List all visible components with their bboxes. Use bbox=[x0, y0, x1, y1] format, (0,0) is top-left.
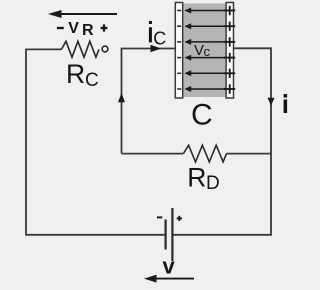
iC current arrowhead bbox=[151, 45, 162, 53]
label minus of vR bbox=[57, 27, 64, 29]
svg-text:c: c bbox=[204, 44, 211, 59]
up arrowhead on left inner branch bbox=[118, 93, 125, 102]
svg-text:C: C bbox=[153, 29, 166, 49]
capacitor C left plate bbox=[175, 3, 182, 99]
battery minus sign bbox=[157, 216, 162, 218]
vR reference arrow (top) bbox=[58, 13, 117, 15]
svg-text:V: V bbox=[68, 20, 79, 37]
v reference arrow (bottom) bbox=[154, 278, 194, 280]
svg-text:R: R bbox=[187, 163, 206, 193]
battery short plate (-) bbox=[165, 220, 167, 250]
svg-text:D: D bbox=[206, 173, 220, 194]
electric field arrows inside capacitor bbox=[191, 11, 227, 90]
capacitor C right plate bbox=[226, 3, 233, 99]
label iC : i drawn as shapes bbox=[149, 21, 152, 24]
resistor RC bbox=[61, 41, 99, 57]
wire RD branch bbox=[122, 153, 272, 155]
svg-text:C: C bbox=[191, 99, 213, 132]
capacitor C dielectric region bbox=[183, 4, 227, 98]
plus charges on right plate bbox=[224, 6, 236, 94]
open terminal circle of RC bbox=[102, 46, 108, 52]
svg-text:C: C bbox=[85, 70, 99, 91]
battery plus sign bbox=[177, 216, 182, 221]
svg-text:R: R bbox=[82, 22, 94, 39]
wire: bottom right, right side, top right to capacitor bbox=[174, 48, 272, 235]
svg-text:V: V bbox=[194, 42, 204, 59]
node wire: down branch and wire to capacitor bbox=[122, 49, 176, 154]
resistor RD bbox=[183, 145, 226, 162]
label plus of vR bbox=[101, 24, 108, 31]
wire: RC left lead, left side, bottom left bbox=[26, 49, 165, 234]
svg-text:R: R bbox=[66, 59, 85, 89]
label i (right) bbox=[284, 94, 288, 98]
minus charges on left plate bbox=[177, 11, 181, 90]
down arrowhead (current i) on right wire bbox=[268, 98, 275, 106]
svg-text:v: v bbox=[163, 253, 176, 278]
battery long plate (+) bbox=[171, 208, 173, 261]
